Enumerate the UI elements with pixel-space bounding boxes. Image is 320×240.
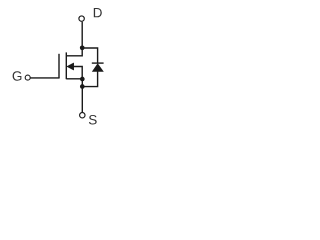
transistor Q1 body arrow xyxy=(67,63,74,70)
wire source lead xyxy=(66,78,82,80)
wire drain to channel xyxy=(66,48,82,56)
terminal G circle xyxy=(25,75,30,80)
wire drain to diode rail xyxy=(82,48,97,63)
wire source stem xyxy=(81,79,83,112)
terminal S circle xyxy=(80,113,85,118)
terminal D circle xyxy=(79,16,84,21)
diode D1 cathode bar xyxy=(92,62,104,64)
transistor Q1 channel bar xyxy=(65,52,67,79)
junction source node 1 xyxy=(80,77,85,82)
wire body arrow to source xyxy=(73,67,82,80)
label G xyxy=(13,71,22,81)
label D xyxy=(94,8,102,17)
transistor Q1 gate bar xyxy=(58,54,60,78)
label S xyxy=(89,115,97,125)
wire gate lead xyxy=(30,77,59,79)
junction source node 2 xyxy=(80,84,85,89)
wire drain stem xyxy=(81,22,83,48)
junction drain node xyxy=(80,45,85,50)
wire diode rail bottom xyxy=(82,72,97,87)
diode D1 triangle xyxy=(92,64,103,72)
